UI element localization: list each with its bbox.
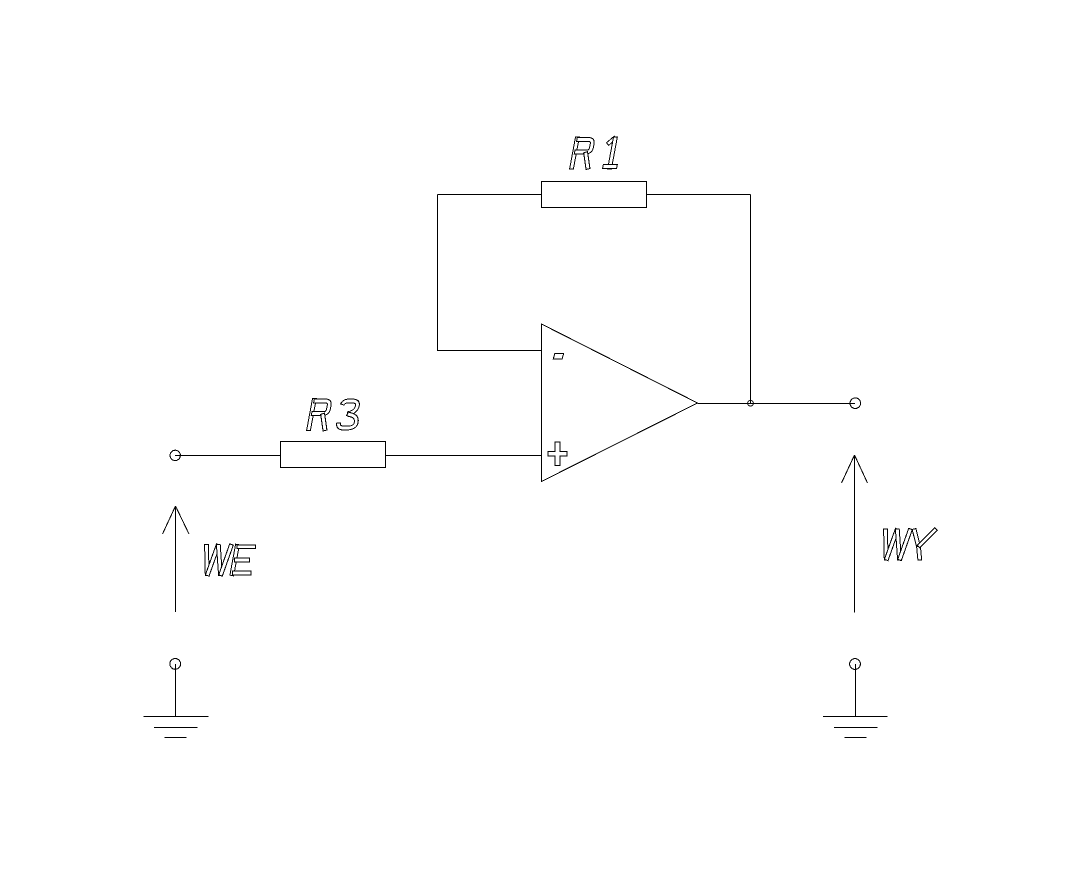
resistor R1 xyxy=(542,182,647,208)
terminal WY output circle xyxy=(850,398,861,409)
arrow WE xyxy=(163,506,190,612)
op-amp minus sign xyxy=(553,353,563,359)
wire to inverting input xyxy=(438,350,542,352)
ground left stem xyxy=(175,664,177,717)
op-amp U1 xyxy=(542,324,698,482)
ground left bars xyxy=(144,717,209,738)
ground right stem xyxy=(855,664,857,717)
label R3 xyxy=(306,399,362,432)
ground left terminal circle xyxy=(170,659,181,670)
label WY xyxy=(884,528,938,561)
wire R1 left lead xyxy=(438,194,542,196)
wire op-amp output xyxy=(698,403,856,405)
ground right bars xyxy=(823,717,888,738)
arrow WY xyxy=(842,455,868,613)
terminal WE input circle xyxy=(170,450,180,460)
op-amp plus sign xyxy=(548,442,567,465)
wire feedback right vertical xyxy=(750,195,752,404)
wire R3 to non-inverting input xyxy=(386,455,542,457)
wire input to R3 xyxy=(175,455,281,457)
wire R1 right lead xyxy=(647,194,751,196)
resistor R3 xyxy=(281,442,386,468)
label WE xyxy=(205,544,256,576)
node feedback junction xyxy=(748,400,754,406)
wire feedback left vertical xyxy=(437,195,439,352)
label R1 xyxy=(569,136,622,169)
ground right terminal circle xyxy=(850,659,861,670)
